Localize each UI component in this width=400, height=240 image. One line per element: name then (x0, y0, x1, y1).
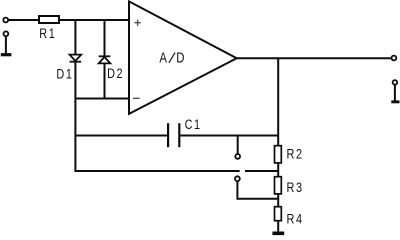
wire (277, 194, 279, 207)
switch contact S1b (235, 176, 240, 181)
resistor R1 (39, 16, 59, 23)
wire (236, 181, 238, 200)
ground (391, 100, 399, 103)
resistor R3 (275, 177, 282, 194)
ground (1, 53, 12, 56)
wire (5, 36, 7, 53)
wire (74, 20, 76, 55)
resistor R4 (275, 207, 282, 221)
ground (272, 232, 284, 236)
wire (179, 135, 278, 137)
svg-text:R1: R1 (39, 26, 56, 42)
ground terminal J2 (4, 31, 9, 36)
wire (75, 135, 168, 137)
wire (75, 98, 129, 100)
pin + (134, 20, 140, 26)
wire (237, 136, 239, 154)
wire (277, 163, 279, 177)
wire (237, 57, 392, 59)
svg-text:D1: D1 (56, 66, 73, 82)
resistor R2 (275, 146, 282, 163)
diode D2 (99, 56, 111, 63)
svg-text:C1: C1 (185, 117, 202, 133)
wire (245, 170, 278, 172)
wire (277, 221, 279, 232)
pin - (133, 97, 140, 99)
wire (8, 19, 39, 21)
wire (104, 63, 106, 98)
op-amp U1 (129, 1, 237, 114)
svg-text:R4: R4 (287, 211, 304, 227)
svg-text:R2: R2 (287, 146, 304, 162)
capacitor C1 (168, 123, 179, 147)
svg-text:R3: R3 (287, 180, 304, 196)
label A/D (159, 49, 184, 66)
output terminal J3 (392, 56, 397, 61)
wire (75, 170, 239, 172)
diode D1 (70, 55, 82, 62)
wire (277, 58, 279, 145)
wire (104, 20, 106, 56)
ground terminal J4 (393, 80, 398, 85)
wire (394, 85, 396, 101)
svg-text:A: A (159, 49, 167, 66)
wire (74, 62, 76, 172)
wire (237, 198, 278, 200)
input terminal J1 (3, 18, 8, 23)
svg-text:D2: D2 (107, 66, 124, 82)
wire (59, 19, 129, 21)
svg-text:D: D (176, 49, 184, 66)
switch contact S1a (235, 154, 240, 159)
